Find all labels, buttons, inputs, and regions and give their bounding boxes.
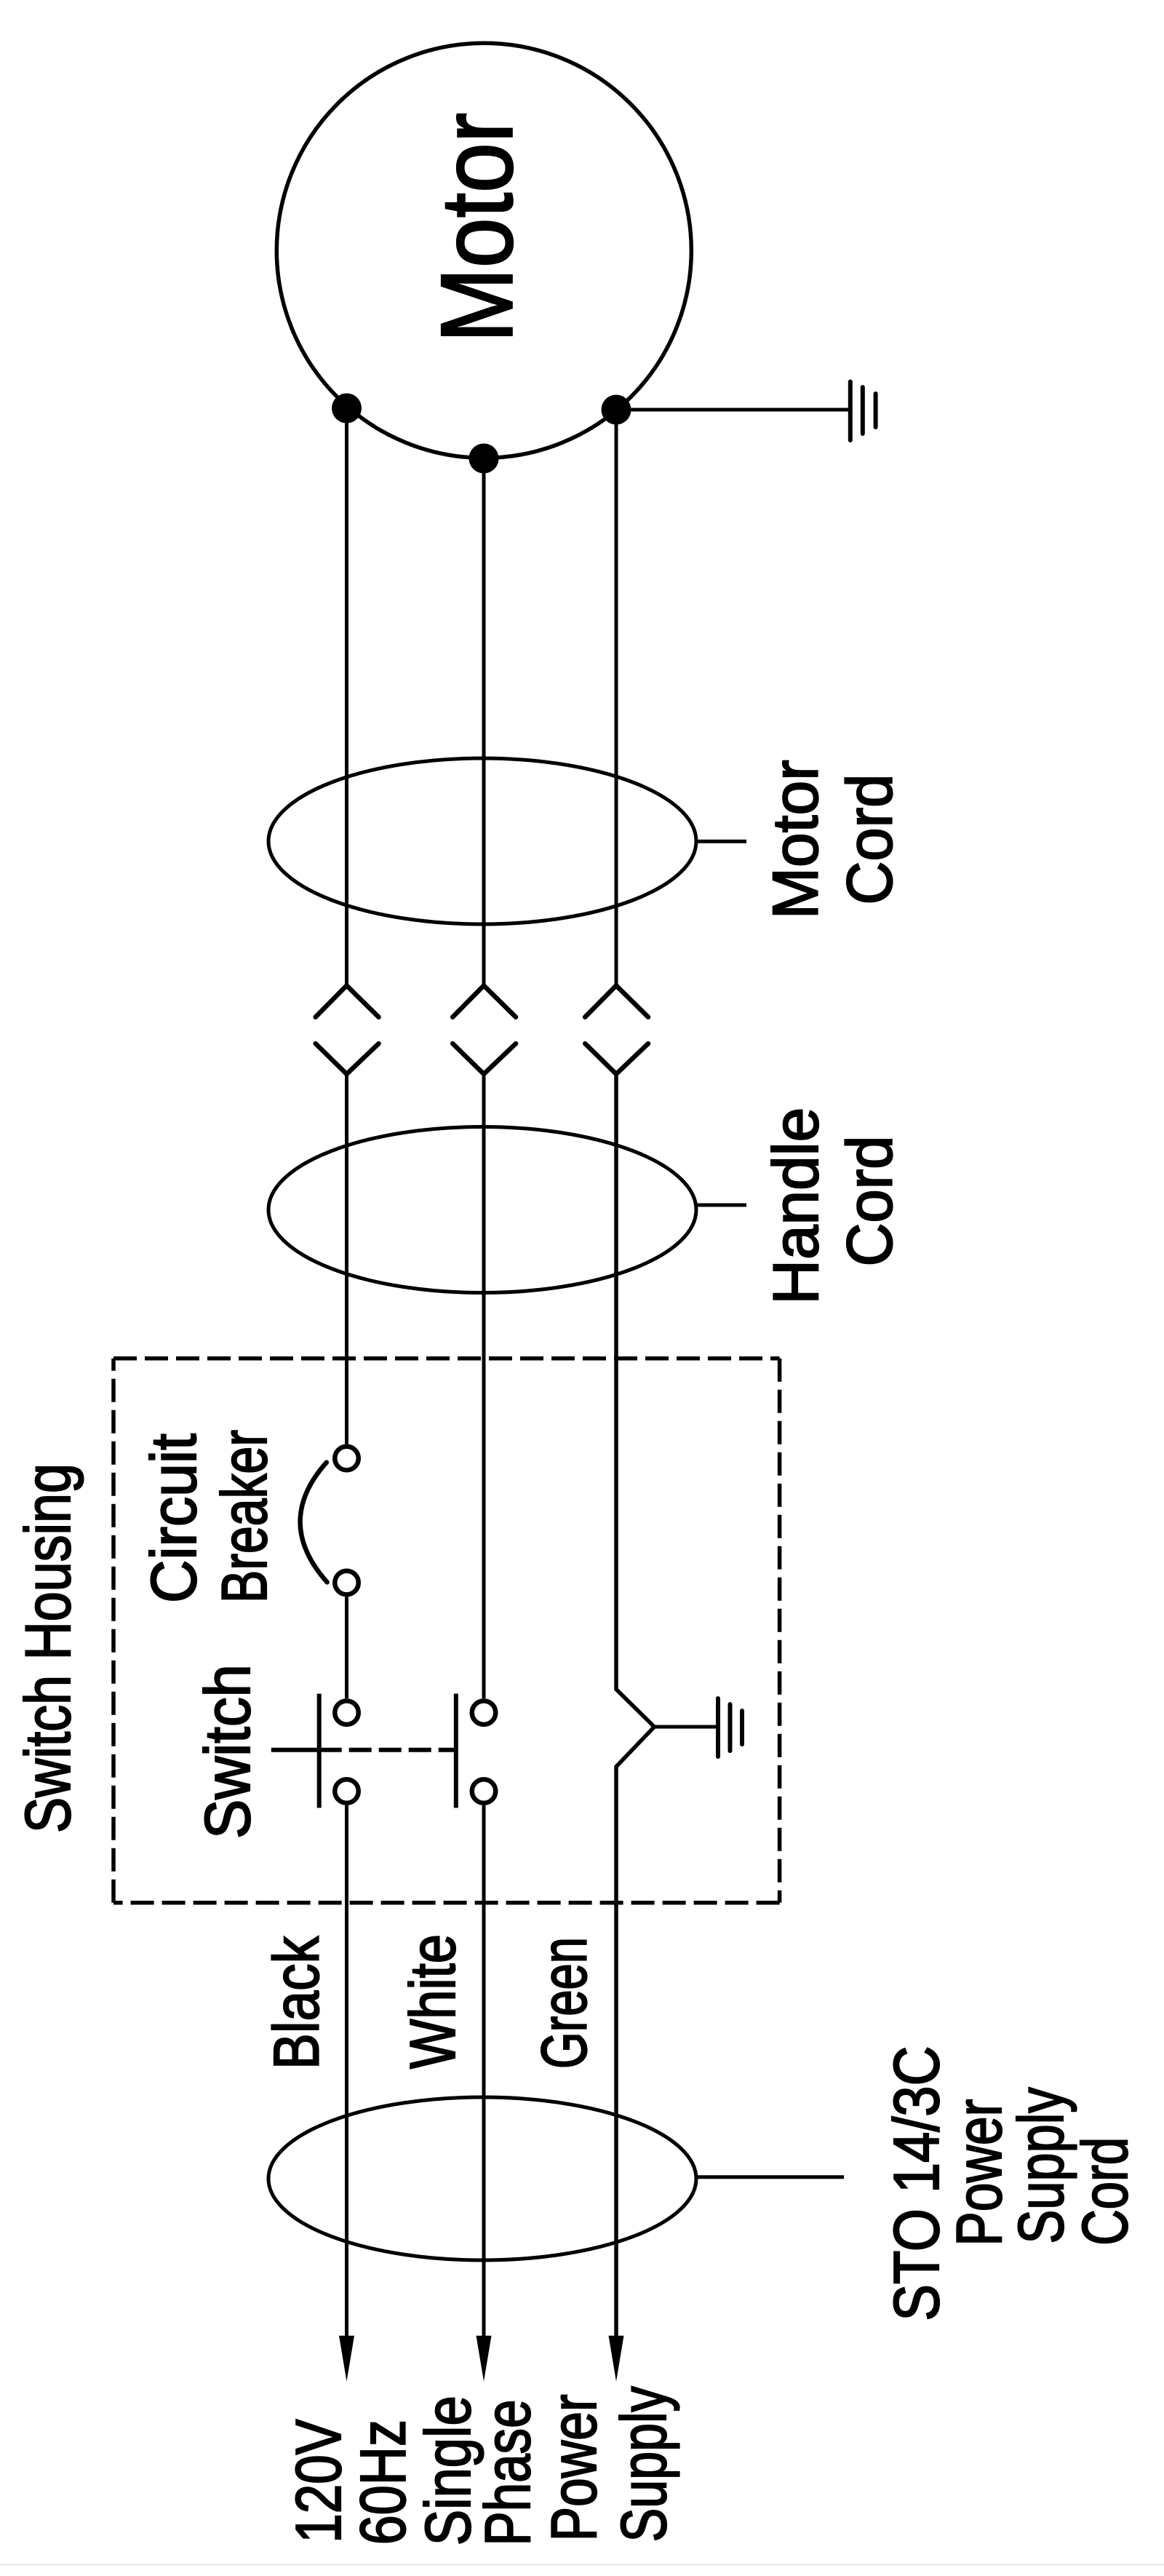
svg-text:60Hz: 60Hz xyxy=(347,2420,419,2545)
junction dot white wire at motor xyxy=(469,444,499,474)
wire black (handle cord section) xyxy=(345,1074,348,1444)
page edge faint line xyxy=(0,2564,1164,2566)
handle cord leader line xyxy=(696,1204,746,1207)
arrow green wire xyxy=(609,2336,624,2382)
svg-text:Green: Green xyxy=(528,1937,600,2069)
circuit breaker CB1 xyxy=(300,1447,359,1595)
svg-text:Switch: Switch xyxy=(191,1664,263,1839)
svg-text:Phase: Phase xyxy=(471,2400,543,2546)
switch S1 (DPST) xyxy=(271,1694,495,1808)
svg-text:Breaker: Breaker xyxy=(208,1430,280,1603)
arrow black wire xyxy=(339,2336,354,2382)
svg-text:Supply: Supply xyxy=(1005,2088,1077,2244)
power supply cord label xyxy=(880,2046,1141,2321)
circuit breaker label xyxy=(137,1430,280,1603)
svg-text:Circuit: Circuit xyxy=(137,1434,210,1603)
svg-text:Handle: Handle xyxy=(760,1108,832,1305)
power supply label xyxy=(282,2386,679,2545)
svg-text:Motor: Motor xyxy=(760,760,832,919)
handle cord label xyxy=(760,1108,906,1305)
svg-text:Cord: Cord xyxy=(834,774,906,905)
connector splice white wire xyxy=(453,985,516,1074)
power supply cord leader line xyxy=(696,2175,844,2179)
wire black (switch to plug) xyxy=(345,1805,348,2336)
wire black (motor lead) xyxy=(345,408,348,985)
arrow white wire xyxy=(477,2336,492,2382)
wire white (switch to plug) xyxy=(482,1805,486,2336)
wire white (handle cord section) xyxy=(482,1074,486,1698)
junction dot green wire at motor xyxy=(602,395,631,425)
ground (green wire inside housing) xyxy=(654,1698,742,1757)
connector splice black wire xyxy=(316,985,379,1074)
svg-text:Power: Power xyxy=(538,2394,610,2541)
svg-text:White: White xyxy=(396,1934,469,2069)
svg-text:Switch Housing: Switch Housing xyxy=(12,1463,84,1833)
svg-text:Motor: Motor xyxy=(420,113,534,343)
svg-text:Cord: Cord xyxy=(834,1136,906,1267)
svg-text:Black: Black xyxy=(260,1936,332,2070)
svg-text:Supply: Supply xyxy=(607,2386,679,2542)
connector splice green wire xyxy=(585,985,648,1074)
wire white (motor lead) xyxy=(482,458,486,985)
motor cord leader line xyxy=(696,840,746,843)
switch housing dashed enclosure xyxy=(113,1359,780,1903)
svg-text:120V: 120V xyxy=(282,2419,354,2543)
wire green (handle cord section, with bend at housing ground tap) xyxy=(616,1074,654,2336)
ground (motor frame earth) xyxy=(616,382,876,441)
svg-text:STO 14/3C: STO 14/3C xyxy=(880,2046,952,2321)
wire black (breaker to switch) xyxy=(345,1597,348,1699)
junction dot black wire at motor xyxy=(332,394,362,424)
power supply cord ellipse xyxy=(268,2097,696,2260)
svg-text:Cord: Cord xyxy=(1069,2137,1141,2246)
handle cord ellipse xyxy=(268,1127,696,1293)
motor M1 xyxy=(276,43,691,458)
motor cord ellipse xyxy=(268,758,696,924)
wire green (motor lead) xyxy=(615,410,618,985)
motor cord label xyxy=(760,760,906,919)
